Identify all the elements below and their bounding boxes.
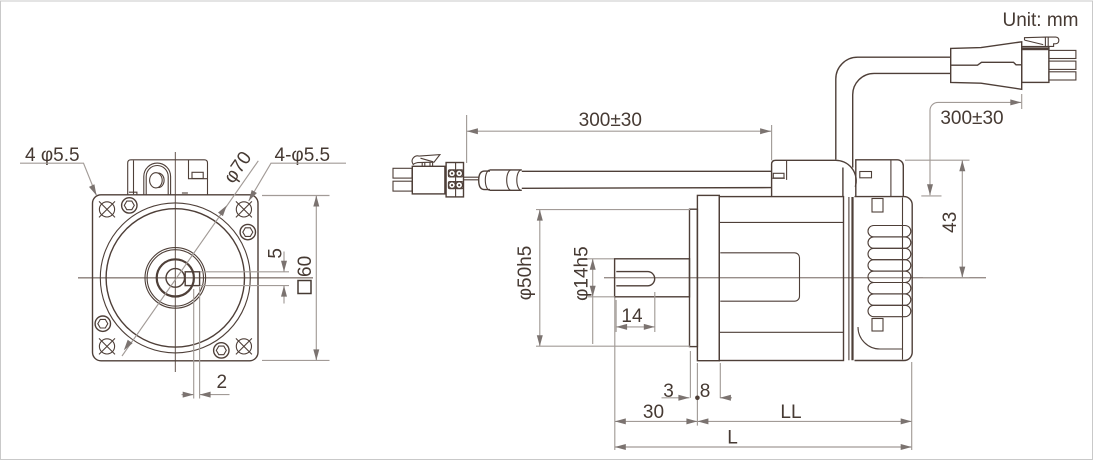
svg-text:φ14h5: φ14h5 (572, 246, 593, 301)
svg-text:8: 8 (700, 381, 711, 402)
svg-text:Unit: mm: Unit: mm (1003, 10, 1079, 31)
svg-text:L: L (727, 428, 738, 449)
svg-text:300±30: 300±30 (940, 108, 1003, 129)
svg-text:43: 43 (940, 212, 961, 233)
svg-text:φ50h5: φ50h5 (515, 246, 536, 301)
svg-text:300±30: 300±30 (579, 110, 642, 131)
svg-text:14: 14 (621, 306, 643, 327)
svg-text:5: 5 (265, 248, 286, 259)
svg-text:60: 60 (295, 256, 316, 277)
svg-text:3: 3 (663, 381, 674, 402)
svg-text:30: 30 (643, 402, 664, 423)
svg-text:2: 2 (217, 372, 228, 393)
svg-text:LL: LL (780, 402, 801, 423)
